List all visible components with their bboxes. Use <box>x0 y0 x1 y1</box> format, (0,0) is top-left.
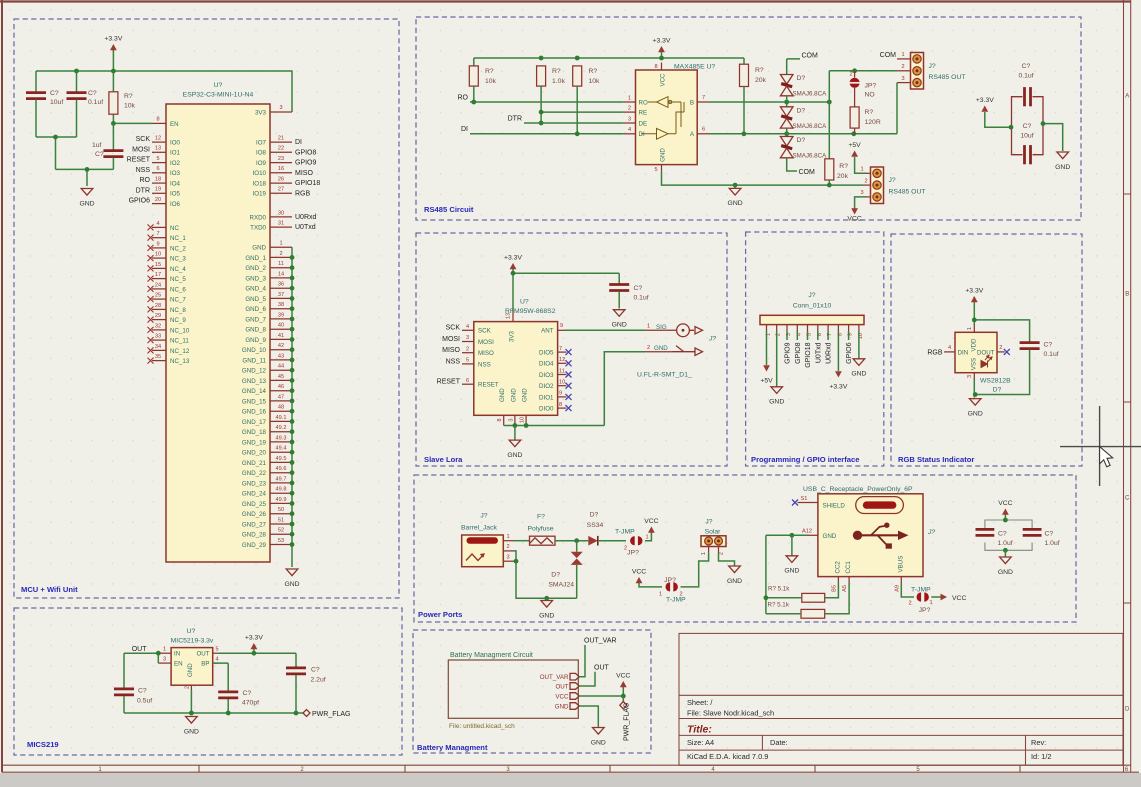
J6 pin 1 <box>708 547 710 553</box>
wire gnd net <box>766 534 809 536</box>
svg-text:RS485 Circuit: RS485 Circuit <box>424 205 474 214</box>
svg-text:S1: S1 <box>801 496 808 502</box>
svg-text:1: 1 <box>646 535 649 541</box>
lora pin 10 DIO2 no-connect <box>558 385 567 387</box>
sheet pin GND <box>570 703 579 710</box>
wire lora gnd <box>504 425 605 427</box>
svg-text:GND_13: GND_13 <box>242 378 267 385</box>
svg-text:DOUT: DOUT <box>977 349 995 356</box>
svg-text:IN: IN <box>174 651 180 658</box>
mic pin 3 EN <box>158 662 171 664</box>
svg-text:GND: GND <box>284 581 299 588</box>
svg-text:COM: COM <box>799 169 816 176</box>
capacitor C3 1uf <box>112 123 114 149</box>
svg-text:RO: RO <box>458 95 469 102</box>
svg-text:GND_29: GND_29 <box>242 542 267 549</box>
mcu pin 24 NC_6 no-connect <box>152 288 166 290</box>
svg-text:C?: C? <box>1044 342 1053 349</box>
svg-text:GND_22: GND_22 <box>242 470 267 477</box>
svg-text:SMAJ6.8CA: SMAJ6.8CA <box>793 91 828 98</box>
mcu pin 21 IO7 label DI <box>270 141 292 143</box>
svg-text:13: 13 <box>506 313 512 319</box>
wire pin2 / ground <box>776 331 778 387</box>
power VCC 2 <box>639 583 662 587</box>
svg-text:U0Txd: U0Txd <box>295 224 316 231</box>
svg-text:RO: RO <box>639 99 648 106</box>
mcu pin 37 GND_5 <box>270 297 292 299</box>
svg-text:21: 21 <box>278 136 284 142</box>
svg-text:40: 40 <box>278 323 284 329</box>
svg-text:RS485 OUT: RS485 OUT <box>929 74 966 81</box>
wire GND / ground <box>579 706 598 727</box>
mcu pin 49.1 GND_17 <box>270 420 292 422</box>
wire to VCC arrow <box>931 596 940 598</box>
power VCC down <box>855 197 866 209</box>
max485 pin 8 VCC <box>661 63 663 71</box>
svg-text:IO9: IO9 <box>256 160 267 167</box>
svg-text:8: 8 <box>559 402 562 408</box>
svg-text:IO1: IO1 <box>170 150 181 157</box>
svg-text:NSS: NSS <box>478 361 491 368</box>
svg-text:IO2: IO2 <box>170 160 181 167</box>
svg-text:33: 33 <box>155 334 161 340</box>
svg-text:MOSI: MOSI <box>132 146 150 153</box>
wire A net <box>709 133 898 135</box>
svg-text:DTR: DTR <box>508 115 522 122</box>
svg-text:File: Slave Nodr.kicad_sch: File: Slave Nodr.kicad_sch <box>687 709 774 718</box>
svg-text:5: 5 <box>216 646 219 652</box>
J4 pin 9 <box>848 325 850 331</box>
svg-text:2: 2 <box>999 345 1002 351</box>
mcu pin 49.6 GND_22 <box>270 472 292 474</box>
svg-text:VCC: VCC <box>616 673 630 680</box>
svg-text:Programming / GPIO interface: Programming / GPIO interface <box>751 455 859 464</box>
svg-text:VBUS: VBUS <box>897 556 904 573</box>
svg-text:GND_11: GND_11 <box>242 357 266 364</box>
svg-text:+3.3V: +3.3V <box>504 255 522 262</box>
svg-text:20k: 20k <box>837 173 849 180</box>
svg-text:RO: RO <box>140 177 151 184</box>
svg-text:GND_16: GND_16 <box>242 409 267 416</box>
svg-text:C?: C? <box>88 90 97 97</box>
resistor R4 10k <box>573 66 582 86</box>
svg-text:3: 3 <box>901 76 904 82</box>
wire R5 to A <box>743 87 745 134</box>
svg-text:VCC: VCC <box>555 693 569 700</box>
svg-text:34: 34 <box>155 344 161 350</box>
svg-text:1: 1 <box>701 552 707 555</box>
mcu pin 45 GND_13 <box>270 379 292 381</box>
svg-text:BP: BP <box>201 661 209 668</box>
svg-text:19: 19 <box>155 187 161 193</box>
svg-text:8: 8 <box>497 418 503 421</box>
svg-text:A12: A12 <box>802 529 812 535</box>
svg-text:1: 1 <box>930 600 933 606</box>
mcu pin 49.8 GND_24 <box>270 492 292 494</box>
J2 pin 1 <box>866 172 871 174</box>
wire fuse to diode <box>555 540 588 542</box>
svg-text:U0Rxd: U0Rxd <box>826 342 833 364</box>
lora pin 9 DIO1 no-connect <box>558 396 567 398</box>
svg-text:IO5: IO5 <box>170 191 181 198</box>
svg-text:PWR_FLAG: PWR_FLAG <box>312 711 351 718</box>
svg-text:+3.3V: +3.3V <box>829 384 847 391</box>
svg-text:27: 27 <box>278 187 284 193</box>
svg-text:GND_8: GND_8 <box>245 327 266 334</box>
svg-text:49.3: 49.3 <box>276 435 287 441</box>
svg-text:10k: 10k <box>485 78 497 85</box>
J4 pin 6 <box>817 325 819 331</box>
svg-text:Power Ports: Power Ports <box>418 610 462 619</box>
svg-text:GPIO9: GPIO9 <box>785 342 792 364</box>
svg-text:36: 36 <box>278 282 284 288</box>
capacitor C7 0.1uf <box>1020 341 1040 344</box>
svg-text:20: 20 <box>155 197 161 203</box>
svg-text:USB_C_Receptacle_PowerOnly_6P: USB_C_Receptacle_PowerOnly_6P <box>803 486 913 493</box>
svg-text:EN: EN <box>174 661 183 668</box>
svg-text:10uf: 10uf <box>1020 133 1033 140</box>
svg-text:NC_5: NC_5 <box>170 276 186 283</box>
svg-text:3: 3 <box>628 116 631 122</box>
svg-text:DIO1: DIO1 <box>539 394 554 401</box>
mcu pin 4 NC no-connect <box>152 226 166 228</box>
transceiver U2 MAX485E <box>636 70 698 165</box>
svg-text:11: 11 <box>278 261 284 267</box>
max485 pin 1 RO <box>624 101 636 103</box>
svg-text:C?: C? <box>138 688 147 695</box>
lora module U3 RFM95W-868S2 <box>474 322 558 416</box>
mcu pin 38 GND_6 <box>270 308 292 310</box>
svg-text:GND_3: GND_3 <box>245 275 266 282</box>
svg-text:GND_15: GND_15 <box>242 398 267 405</box>
svg-text:10k: 10k <box>124 103 136 110</box>
svg-text:GND: GND <box>539 612 554 619</box>
svg-text:GPIO6: GPIO6 <box>846 342 853 364</box>
svg-text:25: 25 <box>155 293 161 299</box>
svg-text:GND_1: GND_1 <box>245 255 266 262</box>
capacitor C11 470pf <box>218 691 238 694</box>
mcu pin 50 GND_26 <box>270 513 292 515</box>
svg-text:37: 37 <box>278 292 284 298</box>
svg-text:Slave Lora: Slave Lora <box>424 455 463 464</box>
svg-text:SMAJ6.8CA: SMAJ6.8CA <box>793 153 828 160</box>
svg-text:COM: COM <box>880 52 897 59</box>
svg-text:GND_19: GND_19 <box>242 439 267 446</box>
mic pin 1 IN <box>158 652 171 654</box>
svg-text:2: 2 <box>506 544 509 550</box>
svg-text:SIG: SIG <box>656 324 667 331</box>
mcu pin 32 NC_10 no-connect <box>152 329 166 331</box>
svg-text:JP?: JP? <box>627 550 639 557</box>
svg-text:0.1uf: 0.1uf <box>88 99 103 106</box>
svg-text:DTR: DTR <box>136 187 150 194</box>
svg-text:DIO3: DIO3 <box>539 372 554 379</box>
svg-text:DE: DE <box>639 120 648 127</box>
svg-text:U0Txd: U0Txd <box>815 342 822 363</box>
J4 pin 5 <box>807 325 809 331</box>
svg-text:GND_27: GND_27 <box>242 521 267 528</box>
svg-text:1.0k: 1.0k <box>552 78 565 85</box>
wire / label U0Rxd <box>827 331 829 340</box>
svg-text:R?: R? <box>755 67 764 74</box>
mcu U1 ESP32-C3-MINI-1U-N4 <box>166 104 270 562</box>
svg-text:GPIO8: GPIO8 <box>295 149 317 156</box>
led glyph <box>981 356 992 368</box>
J5 pin 1 <box>503 540 513 542</box>
svg-text:J?: J? <box>808 292 815 299</box>
svg-text:GND: GND <box>187 663 194 677</box>
J4 pin 8 <box>837 325 839 331</box>
svg-text:2: 2 <box>466 346 469 352</box>
svg-text:SCK: SCK <box>478 328 492 335</box>
svg-text:GND: GND <box>591 739 606 746</box>
J4 pin 4 <box>796 325 798 331</box>
mcu pin 9 NC_2 no-connect <box>152 247 166 249</box>
wire diode to jumper <box>598 540 626 542</box>
svg-text:4: 4 <box>948 345 951 351</box>
svg-text:1: 1 <box>860 167 863 173</box>
wire pin1 / power +5V down <box>766 331 768 365</box>
J4 pin 1 <box>766 325 768 331</box>
svg-text:MICS219: MICS219 <box>27 740 59 749</box>
svg-text:OUT_VAR: OUT_VAR <box>584 638 617 645</box>
svg-text:GND: GND <box>522 388 529 402</box>
wire jumper to VCC <box>645 533 651 541</box>
svg-text:5: 5 <box>156 156 159 162</box>
svg-text:GND_4: GND_4 <box>245 286 266 293</box>
svg-text:OUT: OUT <box>132 646 148 653</box>
svg-text:GND: GND <box>499 388 506 402</box>
svg-text:GND: GND <box>184 728 199 735</box>
svg-text:Battery Managment Circuit: Battery Managment Circuit <box>450 652 533 659</box>
svg-text:NSS: NSS <box>446 358 461 365</box>
mcu pin 14 GND_3 <box>270 277 292 279</box>
resistor R3 1.0k <box>537 66 546 86</box>
svg-text:A: A <box>1125 93 1129 99</box>
svg-text:2: 2 <box>624 546 627 552</box>
svg-text:7: 7 <box>559 346 562 352</box>
svg-text:49.9: 49.9 <box>276 497 287 503</box>
ws2812b pin 1 VDD <box>973 325 975 332</box>
svg-text:ESP32-C3-MINI-1U-N4: ESP32-C3-MINI-1U-N4 <box>183 92 254 99</box>
svg-text:MCU + Wifi Unit: MCU + Wifi Unit <box>21 585 78 594</box>
svg-text:GND: GND <box>769 399 784 406</box>
svg-text:SCK: SCK <box>446 325 461 332</box>
mcu pin 49.4 GND_20 <box>270 451 292 453</box>
svg-text:VCC: VCC <box>952 595 966 602</box>
mcu pin 1 GND <box>270 246 292 248</box>
svg-text:4: 4 <box>628 127 631 133</box>
svg-text:GND_28: GND_28 <box>242 532 267 539</box>
svg-text:2: 2 <box>901 64 904 70</box>
svg-text:NC_9: NC_9 <box>170 317 186 324</box>
wire +3.3V rail <box>36 71 292 112</box>
mcu pin 25 NC_7 no-connect <box>152 298 166 300</box>
resistor R2 10k <box>469 66 478 86</box>
svg-text:+3.3V: +3.3V <box>104 36 122 43</box>
max485 pin 4 DI <box>624 133 636 135</box>
wire OUT_VAR / label <box>579 645 585 677</box>
wire jumper to solar pin1 <box>681 553 709 587</box>
svg-text:GPIO9: GPIO9 <box>295 160 317 167</box>
mcu pin 43 GND_11 <box>270 359 292 361</box>
svg-text:+3.3V: +3.3V <box>245 635 263 642</box>
svg-text:NC_3: NC_3 <box>170 256 186 263</box>
svg-text:GND_17: GND_17 <box>242 419 267 426</box>
sheet Battery Managment Circuit <box>448 660 578 718</box>
wire / label GPIO18 <box>807 331 809 340</box>
svg-text:DIO4: DIO4 <box>539 361 554 368</box>
lora GND pin 10 <box>525 415 527 425</box>
svg-text:9: 9 <box>559 391 562 397</box>
power VCC caps <box>1004 515 1006 521</box>
svg-text:C?: C? <box>95 151 104 158</box>
ws2812b pin 4 DIN / label RGB <box>944 351 955 353</box>
svg-text:C?: C? <box>311 667 320 674</box>
mcu pin 34 NC_12 no-connect <box>152 349 166 351</box>
wire pin10 / ground <box>858 331 860 359</box>
mcu pin 52 GND_28 <box>270 533 292 535</box>
svg-text:13: 13 <box>155 146 161 152</box>
svg-text:ANT: ANT <box>541 328 554 335</box>
resistor R6 120R <box>850 107 859 128</box>
svg-text:1: 1 <box>967 327 973 330</box>
mcu pin 42 GND_10 <box>270 349 292 351</box>
power +5V <box>855 157 866 173</box>
svg-text:T-JMP: T-JMP <box>666 597 686 604</box>
svg-text:Title:: Title: <box>687 724 712 736</box>
svg-text:JP?: JP? <box>865 83 877 90</box>
svg-text:GND_7: GND_7 <box>245 316 266 323</box>
svg-text:470pf: 470pf <box>242 700 259 707</box>
svg-text:GND: GND <box>507 452 522 459</box>
svg-text:1: 1 <box>647 324 650 330</box>
svg-text:GND: GND <box>728 200 743 207</box>
wire pin2 net to B <box>829 71 897 159</box>
svg-text:3: 3 <box>860 190 863 196</box>
mcu pin 23 IO9 label GPIO9 <box>270 162 292 164</box>
svg-text:U?: U? <box>187 628 196 635</box>
svg-text:GND_25: GND_25 <box>242 501 267 508</box>
svg-text:RGB Status Indicator: RGB Status Indicator <box>898 455 974 464</box>
svg-text:2: 2 <box>864 178 867 184</box>
page frame <box>0 773 1141 787</box>
power +3.3V <box>661 52 663 58</box>
mcu pin 19 IO5 label DTR <box>152 192 166 194</box>
mcu pin 39 GND_7 <box>270 318 292 320</box>
svg-text:22: 22 <box>278 146 284 152</box>
svg-text:GPIO6: GPIO6 <box>129 198 151 205</box>
svg-text:44: 44 <box>278 364 284 370</box>
mcu pin 48 GND_16 <box>270 410 292 412</box>
svg-text:DI: DI <box>461 126 468 133</box>
mcu pin 20 IO6 label GPIO6 <box>152 203 166 205</box>
svg-text:MAX485E U?: MAX485E U? <box>674 64 715 71</box>
svg-text:R?: R? <box>865 109 874 116</box>
svg-text:GND: GND <box>998 569 1013 576</box>
svg-text:GND: GND <box>1055 164 1070 171</box>
svg-text:GND_6: GND_6 <box>245 306 266 313</box>
svg-text:GND: GND <box>654 345 668 352</box>
mouse crosshair cursor <box>1060 406 1141 486</box>
svg-text:D?: D? <box>797 137 806 144</box>
capacitor C5 10uf <box>1023 145 1026 164</box>
wire cc nets <box>825 583 849 614</box>
svg-text:DI: DI <box>295 139 302 146</box>
power +3.3V <box>985 112 1011 127</box>
svg-text:DIN: DIN <box>958 349 969 356</box>
svg-text:NSS: NSS <box>136 167 151 174</box>
svg-text:Conn_01x10: Conn_01x10 <box>793 303 832 310</box>
svg-text:120R: 120R <box>865 119 881 126</box>
svg-text:NC: NC <box>170 225 179 232</box>
svg-text:T-JMP: T-JMP <box>615 529 635 536</box>
J4 pin 2 <box>776 325 778 331</box>
wire RE net <box>541 86 624 123</box>
svg-text:MOSI: MOSI <box>442 336 460 343</box>
ground <box>734 185 736 188</box>
mcu EN pin 8 <box>152 122 166 124</box>
mcu pin 44 GND_12 <box>270 369 292 371</box>
capacitor C8 1.0uf <box>985 520 1006 550</box>
svg-text:GND_10: GND_10 <box>242 347 267 354</box>
svg-text:R?: R? <box>485 68 494 75</box>
max485 pin 2 RE <box>624 111 636 113</box>
svg-text:D?: D? <box>551 572 560 579</box>
ground <box>1004 550 1006 557</box>
svg-text:RGB: RGB <box>295 190 311 197</box>
svg-text:GND_26: GND_26 <box>242 511 267 518</box>
svg-text:OUT: OUT <box>594 665 610 672</box>
svg-text:CC2: CC2 <box>834 561 841 574</box>
svg-text:MISO: MISO <box>442 347 460 354</box>
svg-text:D?: D? <box>993 387 1002 394</box>
mcu pin 29 NC_9 no-connect <box>152 319 166 321</box>
svg-text:GND_9: GND_9 <box>245 337 266 344</box>
svg-text:45: 45 <box>278 374 284 380</box>
svg-text:8: 8 <box>156 117 159 123</box>
svg-text:D?: D? <box>797 75 806 82</box>
jumper JP1 NO <box>854 71 856 78</box>
svg-text:15: 15 <box>155 262 161 268</box>
svg-text:Solar: Solar <box>705 529 722 536</box>
svg-text:GND: GND <box>727 578 742 585</box>
mcu pin 49.3 GND_19 <box>270 441 292 443</box>
lora pin 2 MISO <box>462 352 474 354</box>
mic pin 4 BP <box>213 662 218 664</box>
svg-text:COM: COM <box>802 53 819 60</box>
mcu pin 11 GND_2 <box>270 267 292 269</box>
mcu pin 51 GND_27 <box>270 523 292 525</box>
svg-text:C?: C? <box>1045 531 1054 538</box>
svg-text:C?: C? <box>634 285 643 292</box>
svg-text:U.FL-R-SMT_D1_: U.FL-R-SMT_D1_ <box>637 372 692 379</box>
svg-text:OUT_VAR: OUT_VAR <box>540 674 569 681</box>
svg-text:18: 18 <box>155 177 161 183</box>
wire gnd rail <box>124 663 303 713</box>
svg-text:JP?: JP? <box>664 577 676 584</box>
svg-text:GND: GND <box>784 568 799 575</box>
svg-text:Polyfuse: Polyfuse <box>528 526 554 533</box>
mcu pin 13 IO1 label MOSI <box>152 151 166 153</box>
mcu pin 33 NC_11 no-connect <box>152 339 166 341</box>
mcu pin 53 GND_29 <box>270 544 292 546</box>
wire vss to ground <box>973 379 975 398</box>
ground <box>969 399 981 406</box>
svg-text:D?: D? <box>797 107 806 114</box>
section box Programming / GPIO interface <box>746 232 884 466</box>
mcu pin 26 IO18 label GPIO18 <box>270 182 292 184</box>
